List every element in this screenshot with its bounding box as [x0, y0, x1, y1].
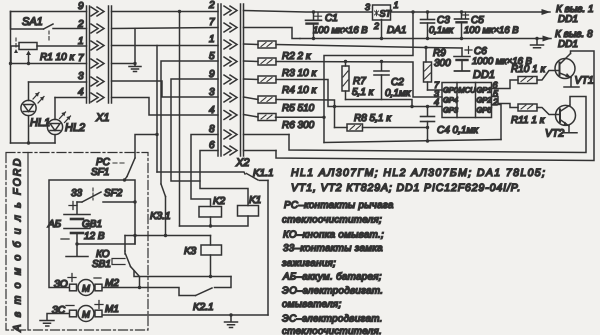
- svg-text:VT1: VT1: [575, 75, 594, 87]
- svg-text:9: 9: [78, 1, 84, 12]
- car boundary dash-dot box: [6, 153, 148, 331]
- wire SF1 row to M2 plus: [49, 180, 125, 288]
- junction: [426, 10, 429, 13]
- junction: [209, 275, 212, 278]
- svg-text:R10 1 к: R10 1 к: [511, 64, 546, 75]
- motor M1 wiper: [52, 301, 119, 322]
- connector X2: [218, 4, 249, 169]
- svg-text:GP4: GP4: [443, 96, 458, 105]
- svg-text:С4 0,1мк: С4 0,1мк: [437, 125, 479, 136]
- svg-text:А в т о м о б и л ь FORD: А в т о м о б и л ь FORD: [12, 156, 24, 332]
- contact K2.1: [103, 277, 231, 314]
- wire washer node row: [125, 235, 211, 237]
- svg-text:K3.1: K3.1: [150, 211, 171, 222]
- resistor R2 2k: [244, 41, 312, 62]
- battery GB1 12V: [47, 202, 105, 245]
- svg-text:С2: С2: [391, 77, 404, 88]
- svg-text:R1 10 к: R1 10 к: [40, 52, 75, 63]
- capacitor C6 1000uF: [454, 46, 533, 71]
- wire battery row to washer node: [77, 236, 135, 245]
- motor M2 washer: [54, 274, 119, 296]
- X1 pin 7 chevrons: [91, 59, 104, 68]
- wire drop to SF1 and K1.1: [156, 46, 158, 173]
- X2 pin 2 chevrons: [224, 6, 237, 15]
- wire X1.2 to X2.7 via ground tap: [112, 28, 219, 29]
- wire R5 down to R8: [276, 100, 335, 128]
- ground VT2 emitter: [562, 126, 577, 133]
- wire VT1 collector loop to X2.6: [276, 51, 594, 161]
- capacitor C2 0.1uF: [374, 62, 412, 100]
- LED HL1: [21, 82, 87, 143]
- svg-text:0,1мк: 0,1мк: [385, 88, 412, 99]
- svg-text:12 В: 12 В: [84, 231, 105, 242]
- X1 pin 3 chevrons: [91, 77, 104, 86]
- wire R1 bottom row to X1 pin 7: [11, 63, 87, 65]
- relay coil K1: [238, 195, 262, 216]
- svg-text:X1: X1: [95, 112, 109, 124]
- junction: [344, 60, 347, 63]
- X2 pin 9 chevrons: [224, 75, 237, 84]
- svg-text:GP3: GP3: [443, 106, 459, 115]
- svg-text:R5 510: R5 510: [282, 103, 315, 114]
- microcontroller DD1 PIC12F629: [442, 69, 495, 118]
- svg-text:2: 2: [208, 0, 215, 11]
- wire X1.4 jog to X2.4: [112, 98, 219, 116]
- wire +12V rail X2.2 to DA1: [244, 11, 373, 13]
- junction: [312, 37, 315, 40]
- wire DA1 pin2 down: [381, 20, 383, 39]
- wire K3 bottom stem: [210, 255, 212, 277]
- wire GP0 row from R9: [428, 89, 443, 91]
- svg-text:MCU: MCU: [459, 86, 477, 95]
- wire X2.6 right stub: [244, 150, 277, 152]
- capacitor C3 0.1uF: [421, 12, 454, 39]
- node left rail: [10, 12, 12, 144]
- wire X1.9 to X2.2: [112, 11, 219, 13]
- svg-text:R7: R7: [353, 76, 366, 87]
- svg-text:K1.1: K1.1: [253, 168, 274, 179]
- svg-text:K2: K2: [213, 196, 226, 207]
- junction: [426, 105, 429, 108]
- ground at M1: [40, 321, 54, 327]
- junction: [123, 178, 126, 181]
- wire R7 C2 ground row: [346, 100, 413, 107]
- junction: [411, 10, 414, 13]
- junction: [164, 234, 167, 237]
- capacitor C1 100uF: [306, 12, 369, 39]
- svg-text:3: 3: [78, 71, 84, 82]
- svg-text:DD1: DD1: [558, 14, 578, 25]
- svg-text:X2: X2: [235, 157, 249, 169]
- junction: [133, 234, 136, 237]
- junction: [410, 105, 413, 108]
- wire washer row left drop to SB1: [124, 236, 126, 252]
- wire X2.9 drop to relay area: [171, 79, 218, 181]
- arrow to pin8 DD1: [546, 38, 551, 40]
- svg-text:R2 2 к: R2 2 к: [282, 51, 312, 62]
- wire R6 to ground drop: [276, 116, 325, 118]
- wire R4 to GP3: [276, 80, 442, 107]
- junction: [75, 242, 78, 245]
- junction: [27, 62, 30, 65]
- voltage regulator DA1 78L05: [365, 0, 406, 36]
- X1 pin 9 chevrons: [91, 7, 104, 16]
- wire X2.8 right stub: [244, 134, 290, 136]
- svg-text:М2: М2: [105, 278, 119, 289]
- X1 pin 4 chevrons: [91, 93, 104, 102]
- switch SA1: [11, 12, 87, 41]
- X2 pin 1 chevrons: [224, 40, 237, 49]
- wire relay commons: [180, 216, 249, 226]
- contact SF1 wiper lever: [91, 157, 135, 180]
- svg-text:33: 33: [71, 188, 83, 199]
- wire DA1 output rail: [391, 11, 543, 13]
- wire X1.7 to ground node: [112, 63, 136, 65]
- svg-text:ST: ST: [380, 9, 393, 19]
- resistor R9 300 vertical: [424, 48, 452, 91]
- chassis ground battery: [66, 244, 88, 257]
- X2 pin 6 chevrons: [224, 146, 237, 155]
- junction: [322, 116, 325, 119]
- svg-text:DA1: DA1: [387, 25, 406, 36]
- resistor R1 potentiometer 10k: [11, 38, 87, 64]
- junction: [535, 37, 538, 40]
- svg-text:SF2: SF2: [104, 188, 123, 199]
- svg-text:РС–контакты рычага: РС–контакты рычага: [284, 200, 394, 211]
- svg-text:АБ: АБ: [47, 219, 62, 230]
- svg-text:300: 300: [434, 58, 451, 69]
- wire K2.1 to washer line: [134, 271, 231, 277]
- svg-text:6: 6: [209, 140, 215, 151]
- svg-text:R6 300: R6 300: [282, 120, 315, 131]
- svg-text:3: 3: [365, 2, 370, 12]
- svg-text:R4 10 к: R4 10 к: [282, 85, 317, 96]
- X2 pin 4 chevrons: [224, 111, 237, 120]
- svg-text:ЗО: ЗО: [54, 279, 68, 290]
- wire SF1 feed: [135, 135, 157, 159]
- wire SB1 bottom to M2 minus row: [131, 267, 140, 288]
- wire SF1 junction down: [125, 180, 136, 202]
- svg-text:0,1мк: 0,1мк: [429, 25, 454, 36]
- wire R10 to VT1 base: [537, 71, 560, 81]
- svg-text:ЗС: ЗС: [52, 305, 66, 316]
- junction: [426, 126, 429, 129]
- junction: [426, 139, 429, 142]
- svg-text:2: 2: [373, 21, 379, 31]
- junction: [380, 37, 383, 40]
- X1 pin 2 chevrons: [91, 24, 104, 33]
- junction: [155, 133, 158, 136]
- relay coil K2: [199, 196, 226, 217]
- junction: [460, 37, 463, 40]
- ground at K2.1: [225, 315, 238, 328]
- wire VT2 collector loop to X2.8: [289, 97, 586, 153]
- svg-text:GP0: GP0: [443, 86, 459, 95]
- wire X2.6 left drop to K1 coil: [200, 151, 248, 206]
- X2 pin 5 chevrons: [224, 57, 237, 66]
- resistor R6 300: [244, 114, 315, 132]
- resistor R10 1k: [511, 64, 546, 84]
- junction node +12V: [178, 10, 181, 13]
- capacitor C5 100uF: [455, 12, 520, 39]
- wire X2.7 to ground rail: [244, 28, 301, 39]
- wire GP2 pin5 to R11: [492, 97, 519, 108]
- junction: [9, 62, 12, 65]
- contact K3.1: [150, 184, 171, 236]
- svg-text:SF1: SF1: [91, 167, 109, 178]
- X2 pin 3 chevrons: [224, 93, 237, 102]
- junction: [380, 60, 383, 63]
- svg-text:2: 2: [492, 97, 498, 107]
- connector X1: [87, 6, 112, 124]
- wire R2 to R9 node: [276, 45, 462, 49]
- junction: [133, 62, 136, 65]
- junction: [333, 105, 336, 108]
- junction: [209, 224, 212, 227]
- transistor VT1 KT829A: [555, 54, 594, 87]
- svg-text:8: 8: [209, 124, 215, 135]
- svg-text:K2.1: K2.1: [193, 302, 214, 313]
- svg-text:7: 7: [209, 17, 215, 28]
- svg-text:2: 2: [77, 19, 84, 30]
- svg-text:4: 4: [434, 97, 439, 107]
- svg-text:АБ–аккум. батарея;: АБ–аккум. батарея;: [282, 272, 382, 283]
- svg-text:КО–кнопка омыват.;: КО–кнопка омыват.;: [283, 230, 384, 241]
- svg-text:R11 1 к: R11 1 к: [511, 115, 546, 126]
- component list text: [281, 167, 546, 335]
- svg-text:стеклоочистителя;: стеклоочистителя;: [282, 215, 382, 226]
- wire SF2 node down to washer row: [134, 202, 136, 244]
- contact SF2 ignition: [71, 188, 135, 202]
- svg-text:HL1 АЛ307ГМ; HL2 АЛ307БМ; DA: HL1 АЛ307ГМ; HL2 АЛ307БМ; DA1 78L05;: [291, 167, 546, 179]
- wire K1.1 common down to M1 wire: [267, 180, 269, 315]
- svg-text:М1: М1: [105, 304, 119, 315]
- svg-text:омывателя;: омывателя;: [282, 299, 342, 310]
- LED HL2: [47, 98, 86, 144]
- pushbutton SB1 washer: [92, 249, 131, 270]
- wire +12V drop to relay commons: [179, 12, 181, 227]
- wire M1 to K1.1 bottom run: [103, 314, 268, 316]
- wire ground tap: [134, 29, 136, 64]
- svg-text:стеклоочистителя.: стеклоочистителя.: [282, 326, 382, 335]
- svg-text:K3: K3: [184, 246, 197, 257]
- svg-text:GP1: GP1: [477, 86, 492, 95]
- X2 pin 8 chevrons: [224, 130, 237, 139]
- svg-text:100 мк×16 В: 100 мк×16 В: [464, 25, 519, 36]
- svg-text:K1: K1: [249, 195, 261, 206]
- svg-text:SB1: SB1: [92, 259, 111, 270]
- svg-text:С1: С1: [325, 13, 338, 24]
- wire X1.3 jog to X2.3: [112, 81, 219, 97]
- junction: [27, 141, 30, 144]
- junction: [312, 10, 315, 13]
- X1 pin 1 chevrons: [91, 41, 104, 50]
- wire M1 left to ground: [47, 314, 69, 321]
- svg-text:33–контакты замка: 33–контакты замка: [283, 243, 383, 254]
- wire top rail to X1 pin 9: [11, 11, 87, 13]
- car label strip divider: [27, 153, 29, 331]
- wire Vdd feed down and left: [324, 12, 413, 143]
- svg-text:М: М: [82, 310, 90, 321]
- junction: [229, 313, 232, 316]
- svg-text:GP2: GP2: [477, 96, 493, 105]
- wire X2.5 drop to K3.1: [161, 61, 218, 184]
- svg-text:М: М: [82, 284, 90, 295]
- relay coil K3: [184, 245, 222, 257]
- svg-text:VT2: VT2: [545, 128, 564, 140]
- svg-text:GP5: GP5: [477, 106, 493, 115]
- wire X1.1 to X2.1: [112, 45, 219, 47]
- wire X2.8 left drop to K2 coil: [191, 135, 218, 207]
- ground VT1 emitter: [564, 78, 579, 88]
- ground: [129, 64, 141, 72]
- capacitor C4 0.1uF: [421, 107, 480, 142]
- svg-text:4: 4: [78, 87, 84, 98]
- resistor R3 10k: [244, 58, 318, 79]
- ground stub on Vss rail: [531, 39, 544, 48]
- contact K1.1: [247, 168, 274, 180]
- junction: [133, 200, 136, 203]
- resistor R11 1k: [511, 104, 546, 126]
- wire LED common bottom: [11, 142, 56, 144]
- wire K1.1 feed: [157, 172, 245, 174]
- svg-text:1: 1: [209, 34, 215, 45]
- wire GP5 pin2 to ground rail: [492, 105, 502, 140]
- svg-text:ЭО–электродвигат.: ЭО–электродвигат.: [282, 286, 383, 297]
- wire GP1 pin6 to R10: [492, 80, 519, 89]
- svg-text:ЭС–электродвигат.: ЭС–электродвигат.: [282, 314, 383, 325]
- svg-text:R3 10 к: R3 10 к: [282, 68, 317, 79]
- wire inner ground rail: [324, 140, 501, 143]
- svg-text:GB1: GB1: [82, 219, 102, 230]
- transistor VT2 KT829A: [545, 105, 576, 140]
- svg-text:DD1: DD1: [558, 39, 578, 50]
- svg-text:1: 1: [394, 0, 399, 10]
- svg-text:5,1 к: 5,1 к: [352, 87, 375, 98]
- resistor R7 5.1k vertical: [342, 62, 375, 100]
- junction: [426, 37, 429, 40]
- svg-text:1: 1: [78, 36, 84, 47]
- svg-text:SA1: SA1: [22, 16, 43, 28]
- junction: [138, 286, 141, 289]
- resistor R5 510: [244, 96, 315, 114]
- svg-text:100 мк×16 В: 100 мк×16 В: [313, 25, 368, 36]
- svg-text:VT1, VT2 КТ829А; DD1 PIC12F62: VT1, VT2 КТ829А; DD1 PIC12F629-04I/P.: [291, 182, 521, 194]
- X2 pin 7 chevrons: [224, 23, 237, 32]
- svg-text:7: 7: [78, 53, 84, 64]
- arrow to pin1 DD1: [542, 11, 550, 13]
- svg-text:R8 5,1 к: R8 5,1 к: [354, 113, 392, 124]
- svg-text:HL2: HL2: [65, 122, 85, 134]
- wire ground rail: [300, 38, 546, 40]
- wire R11 to VT2 base: [537, 108, 560, 115]
- wire R3 to GP4: [276, 62, 442, 98]
- resistor R4 10k: [244, 76, 318, 96]
- svg-text:зажигания;: зажигания;: [281, 258, 336, 269]
- junction: [460, 10, 463, 13]
- resistor R8 5.1k: [335, 113, 428, 131]
- wire K3 top stem: [210, 236, 212, 246]
- junction: [424, 46, 427, 49]
